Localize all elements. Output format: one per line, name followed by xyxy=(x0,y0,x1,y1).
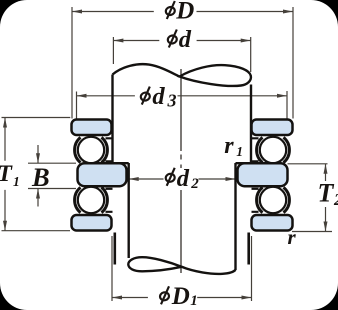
ball row1 right xyxy=(260,137,286,163)
svg-text:1: 1 xyxy=(190,293,198,309)
dim B extension lines xyxy=(28,163,76,188)
ball race arcs row1 left xyxy=(75,137,290,212)
washer top-left W1 xyxy=(72,120,112,136)
dim phiD line xyxy=(72,11,293,13)
phi of phiD1 xyxy=(159,286,170,304)
washer top-right W2 xyxy=(252,120,293,136)
phi of phid2 xyxy=(165,168,176,186)
svg-text:3: 3 xyxy=(167,90,177,110)
dim phid arrows xyxy=(113,39,250,43)
bottom break teardrop xyxy=(128,257,181,271)
svg-text:r: r xyxy=(288,225,297,249)
top break teardrop xyxy=(180,65,251,86)
shaft lower-left edge xyxy=(127,163,129,258)
svg-text:r: r xyxy=(224,133,234,159)
svg-text:1: 1 xyxy=(236,144,243,159)
phi of phid3 xyxy=(140,87,151,105)
dim phid2 arrows xyxy=(129,177,236,181)
svg-text:D: D xyxy=(175,0,194,25)
dim phiD extension lines xyxy=(72,7,293,119)
dim phid3 line xyxy=(77,95,288,97)
centerline axis xyxy=(180,69,182,273)
ball row1 left xyxy=(78,137,104,163)
washer bottom-left W3 xyxy=(72,215,112,231)
svg-text:2: 2 xyxy=(333,190,338,209)
shaft lower-right edge xyxy=(234,163,236,270)
washer bottom-right W4 xyxy=(252,215,293,231)
phi symbols xyxy=(140,1,178,304)
shaft step face right y163 xyxy=(236,162,252,164)
dim T1 arrows xyxy=(3,118,7,231)
phi of phiD xyxy=(165,1,176,19)
housing bore bold line right xyxy=(247,233,250,265)
svg-text:T: T xyxy=(318,178,335,207)
svg-text:d: d xyxy=(179,26,192,53)
dim B arrows (outside) xyxy=(37,145,39,207)
dim phid3 arrows xyxy=(77,94,288,98)
svg-text:2: 2 xyxy=(190,176,199,192)
ball row2 right xyxy=(260,187,286,213)
ball row2 left xyxy=(78,187,104,213)
dim phiD1 arrows xyxy=(112,296,252,300)
dim T2 extension lines xyxy=(288,164,333,232)
svg-text:D: D xyxy=(171,283,190,310)
svg-text:d: d xyxy=(177,165,190,192)
dim phiD1 extension lines xyxy=(112,236,252,301)
shaft step face left y163 xyxy=(113,162,129,164)
center washer left xyxy=(78,163,127,186)
dim phid3 extension lines xyxy=(77,91,288,119)
dim phiD1 line xyxy=(112,297,252,299)
shaft upper-left edge xyxy=(111,75,113,164)
race stub lines xyxy=(106,138,259,212)
phi of phid xyxy=(167,30,178,48)
dim T1 line xyxy=(4,118,6,231)
bottom break curve xyxy=(182,267,236,274)
top break curve xyxy=(113,64,180,76)
dim T2 line xyxy=(325,164,327,232)
dim phid extension lines xyxy=(113,37,250,72)
dim T2 arrows xyxy=(324,164,328,232)
svg-text:T: T xyxy=(0,161,14,187)
dim phiD arrows xyxy=(72,10,293,14)
svg-text:B: B xyxy=(31,162,50,192)
dim T1 extension lines xyxy=(2,118,71,231)
center washer right xyxy=(238,163,288,186)
shaft upper-right edge xyxy=(250,85,252,164)
housing bore bold line left xyxy=(114,233,117,265)
svg-text:d: d xyxy=(152,83,165,110)
dim phid2 line xyxy=(129,178,236,180)
dim phid line xyxy=(113,40,250,42)
svg-text:1: 1 xyxy=(13,174,20,189)
